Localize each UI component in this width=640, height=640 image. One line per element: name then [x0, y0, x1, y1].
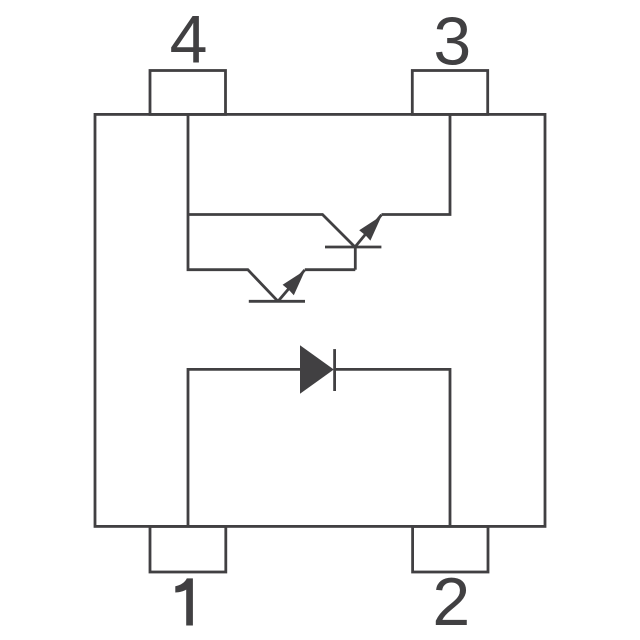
wire LED anode from pin1 [188, 369, 300, 526]
transistor Q2 emitter line [355, 215, 382, 247]
diode D1 triangle [300, 345, 334, 394]
pin 4 lead [150, 71, 226, 115]
wire LED cathode to pin2 [335, 369, 450, 526]
transistor Q1 emitter arrowhead [283, 270, 306, 295]
wire Q1 emitter to Q2 base [305, 268, 356, 271]
svg-text:3: 3 [433, 4, 471, 80]
wire pin4 to Q1 collector [188, 114, 278, 301]
pin 3 lead [412, 71, 487, 115]
transistor Q2 emitter arrowhead [359, 216, 382, 241]
transistor Q1 emitter line [278, 270, 305, 301]
transistor Q2 base bar [325, 246, 381, 249]
wire pin4 branch to Q2 collector [188, 215, 355, 248]
package body outline [95, 114, 545, 526]
diode D1 cathode bar [333, 349, 336, 391]
svg-text:2: 2 [432, 564, 470, 640]
pin 1 lead [150, 526, 226, 572]
wire Q2 base drop [354, 247, 357, 270]
svg-text:4: 4 [170, 1, 208, 77]
pin label 1 [175, 578, 193, 625]
transistor Q1 base bar [249, 300, 305, 303]
pin 2 lead [413, 526, 488, 572]
wire Q2 emitter to pin3 [382, 114, 451, 214]
